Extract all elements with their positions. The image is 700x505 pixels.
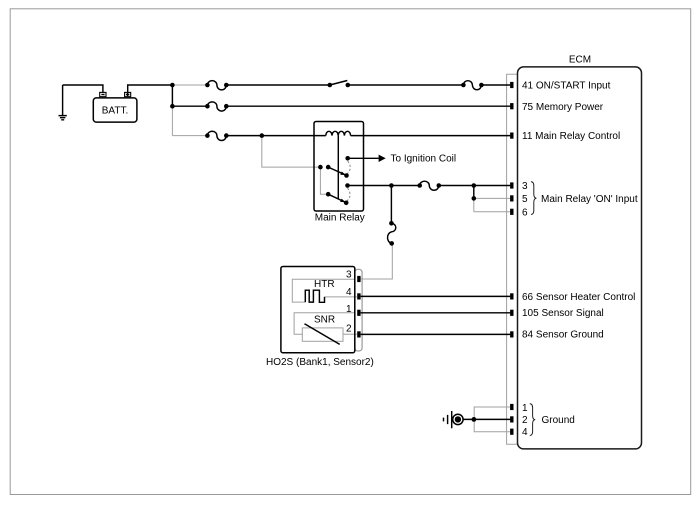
svg-text:66 Sensor Heater Control: 66 Sensor Heater Control: [522, 292, 635, 303]
svg-text:HO2S (Bank1, Sensor2): HO2S (Bank1, Sensor2): [266, 357, 374, 368]
svg-text:4: 4: [346, 287, 352, 298]
svg-text:Main Relay 'ON' Input: Main Relay 'ON' Input: [541, 194, 638, 205]
svg-text:HTR: HTR: [314, 279, 335, 290]
svg-text:105 Sensor Signal: 105 Sensor Signal: [522, 308, 604, 319]
svg-text:To Ignition Coil: To Ignition Coil: [391, 154, 457, 165]
svg-text:2: 2: [522, 415, 528, 426]
svg-text:4: 4: [522, 427, 528, 438]
svg-text:BATT.: BATT.: [102, 105, 128, 116]
svg-text:84 Sensor Ground: 84 Sensor Ground: [522, 330, 604, 341]
svg-text:41 ON/START Input: 41 ON/START Input: [522, 81, 611, 92]
svg-text:1: 1: [522, 403, 528, 414]
svg-text:ECM: ECM: [569, 55, 591, 66]
svg-text:3: 3: [346, 270, 352, 281]
svg-text:3: 3: [522, 181, 528, 192]
svg-text:1: 1: [346, 304, 352, 315]
svg-text:Main Relay: Main Relay: [315, 213, 365, 224]
svg-text:5: 5: [522, 194, 528, 205]
svg-text:11 Main Relay Control: 11 Main Relay Control: [522, 131, 620, 142]
svg-text:75 Memory Power: 75 Memory Power: [522, 102, 604, 113]
svg-text:2: 2: [346, 323, 352, 334]
svg-text:6: 6: [522, 207, 528, 218]
svg-text:Ground: Ground: [542, 415, 575, 426]
svg-text:SNR: SNR: [314, 315, 335, 326]
